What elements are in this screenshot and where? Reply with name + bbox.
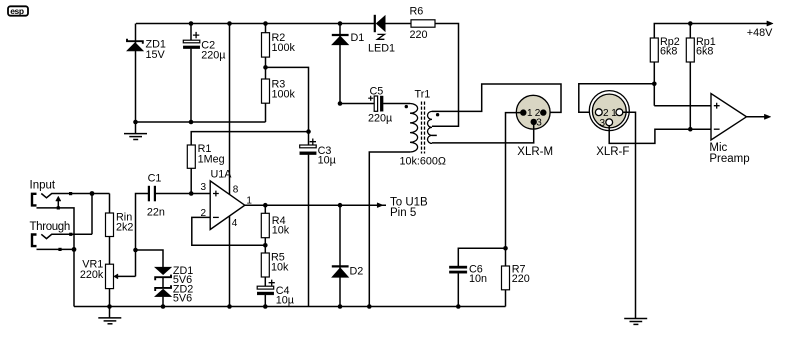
wire secondary top to XLR-M pin 2 [432,84,561,112]
label R2 100k [272,32,296,54]
primary phase dot [405,105,408,108]
label C2 220u [201,40,225,62]
label 10k:600ohm [400,156,447,168]
label Rp2 6k8 [660,36,680,58]
node wiper/zener junction [133,248,138,253]
0V rail wire (upper) [136,121,266,123]
label C3 10u [318,145,336,167]
svg-text:220µ: 220µ [201,50,225,62]
diode D1 [332,21,349,106]
wire Rp2 to XLR-F pin2 [579,84,655,113]
label D1 [351,32,365,44]
svg-text:Input: Input [30,179,56,191]
node pin4 / rail [227,304,232,309]
output arrow [747,114,771,119]
node dot rail/ZD1 bottom [133,120,138,125]
svg-text:10µ: 10µ [276,294,294,306]
capacitor C6 10n [449,266,467,309]
label Rp1 6k8 [696,36,716,58]
wire XLR-M pin3 to secondary bottom [432,122,534,143]
svg-text:C5: C5 [370,86,384,98]
resistor R2 100k [262,21,270,67]
label VR1 220k [80,258,104,281]
svg-text:6k8: 6k8 [660,46,677,58]
svg-text:Preamp: Preamp [709,153,749,165]
label R5 10k [271,251,289,273]
zener ZD1 15V [127,24,144,123]
svg-text:C1: C1 [148,172,162,184]
svg-text:4: 4 [232,218,238,229]
labels ZD1 ZD2 [173,265,193,305]
connector XLR-M [516,95,550,129]
secondary unused tap stub [432,134,437,136]
label R4 10k [272,215,290,237]
svg-text:Pin 5: Pin 5 [390,207,416,219]
resistor R4 10k [261,205,269,245]
label C4 10u [276,285,294,306]
XLR-M pin 3 [531,119,537,125]
0V bottom rail wire [74,306,506,308]
svg-text:XLR-F: XLR-F [596,146,629,158]
resistor Rp1 6k8 [686,24,694,132]
zener ZD2 5V6 [155,278,172,309]
core [421,102,423,154]
XLR-M pin 1 [520,109,526,115]
wire op-amp pin 8 to +15V rail [229,24,231,199]
node VR1 bottom / ground [107,304,112,309]
wire primary bottom return [369,152,410,307]
svg-text:2k2: 2k2 [116,222,133,234]
node input/through tie [90,191,95,196]
potentiometer VR1 220k [106,264,136,306]
label R7 220 [512,263,530,285]
svg-text:Through: Through [30,221,70,233]
op-amp U1A [210,181,245,230]
svg-text:D1: D1 [351,32,365,44]
svg-text:10k: 10k [271,262,289,274]
connector XLR-F [589,91,629,131]
secondary phase dot [436,113,439,116]
capacitor C3 10u [300,132,317,307]
resistor Rin 2k2 [106,194,114,265]
label +48V [747,27,773,39]
secondary winding [428,111,433,143]
capacitor C4 10u [257,280,275,309]
svg-text:3: 3 [201,182,207,193]
resistor R5 10k [261,245,269,286]
XLR-F pin 3 [606,119,613,126]
label Through [30,221,70,233]
svg-text:10k: 10k [272,225,290,237]
ESP logo [8,6,28,16]
arrow to U1B [377,203,383,208]
label Tr1 [415,89,431,101]
wire to zeners [136,250,164,268]
label C5 220u [368,86,392,125]
svg-text:100k: 100k [272,88,296,100]
wire junction to C6 [458,248,505,266]
wire feedback pin2 [192,217,265,245]
op-amp pin numbers [201,182,253,229]
resistor R6 220 [411,20,435,27]
XLR-F pin 2 [595,109,602,116]
svg-text:8: 8 [233,185,239,196]
svg-text:220: 220 [512,273,530,285]
svg-text:220k: 220k [80,269,104,281]
svg-text:15V: 15V [146,49,166,61]
node sleeves junction [72,247,77,252]
LED LED1 [375,15,385,40]
jack Through [32,233,92,246]
primary winding [410,104,418,153]
wire R2/R3 junction to C3 [266,67,309,131]
svg-text:LED1: LED1 [368,43,395,55]
capacitor C1 22n [149,186,210,202]
svg-text:+48V: +48V [747,27,773,39]
label LED1 [368,43,395,55]
capacitor C2 [183,21,200,124]
jack Input [32,192,110,205]
capacitor C5 220u [340,96,410,112]
label R3 100k [272,79,296,101]
svg-text:U1A: U1A [211,169,233,181]
label R6 220 [410,6,428,42]
wire XLR-F pin1 to chassis ground [623,112,636,318]
op-amp Mic Preamp [711,94,747,141]
wire bias to R1 [191,132,308,145]
XLR-M pin numbers [527,108,542,128]
svg-text:D2: D2 [350,266,364,278]
diode D2 [332,205,349,309]
svg-text:esp: esp [10,6,24,16]
svg-text:220: 220 [410,29,428,41]
label U1A [211,169,233,181]
label XLR-M [517,146,553,158]
XLR-F pin 1 [616,109,623,116]
label XLR-F [596,146,629,158]
wire LED1 to R6 [386,23,412,25]
svg-text:1: 1 [611,108,617,119]
label ZD1 15V [146,38,166,61]
wire XLR-F pin3 to preamp - input [609,126,711,144]
resistor R7 220 [502,248,510,306]
node R2/R3 junction [263,65,268,70]
wire through tip up to input [91,194,93,235]
zener ZD1 5V6 [155,267,172,280]
ground [124,122,147,140]
+15V top rail wire [136,23,376,25]
wire input sleeve down [37,208,75,307]
resistor Rp2 6k8 [650,38,658,106]
svg-text:XLR-M: XLR-M [517,146,553,158]
wire output pin1 [245,204,386,206]
+48V rail wire [654,24,767,39]
svg-text:22n: 22n [147,207,165,219]
label D2 [350,266,364,278]
svg-text:10µ: 10µ [318,155,336,167]
svg-text:1: 1 [527,108,533,119]
wire Rp2 node to preamp + input [654,105,711,107]
label C6 10n [469,263,487,285]
svg-text:10n: 10n [469,273,487,285]
ground (chassis) [624,319,647,325]
resistor R1 1Meg [187,145,195,196]
wire VR1 wiper up to C1 [136,194,149,277]
svg-text:R6: R6 [410,6,424,18]
svg-text:10k:600Ω: 10k:600Ω [400,156,447,168]
svg-text:6k8: 6k8 [696,46,713,58]
wire R6 to transformer centre tap [432,24,459,127]
svg-text:1Meg: 1Meg [198,153,225,165]
svg-text:5V6: 5V6 [173,293,192,305]
ground [98,307,121,324]
label R1 1Meg [198,143,225,166]
svg-text:100k: 100k [272,42,296,54]
svg-text:220µ: 220µ [368,113,392,125]
label Input [30,179,56,191]
transformer Tr1 [405,102,440,154]
label Rin 2k2 [116,212,133,234]
node C3/R1 bias junction [306,129,311,134]
svg-text:Tr1: Tr1 [415,89,431,101]
resistor R3 100k [262,67,270,122]
XLR-F pin numbers [600,108,618,129]
label Mic Preamp [709,142,749,165]
input jack switch arrow [56,196,61,209]
label To U1B Pin 5 [390,197,428,220]
wire op-amp pin 4 to 0V rail [229,212,231,307]
label C1 22n [147,172,165,218]
wire XLR-M pin1 to R7/C6 [506,113,523,249]
node feedback/R4/R5 [263,243,268,248]
svg-text:3: 3 [600,118,606,129]
wire through sleeve [37,248,75,250]
XLR-M pin 2 [540,109,546,115]
node R7/C6 junction [503,246,508,251]
svg-text:3: 3 [536,117,542,128]
